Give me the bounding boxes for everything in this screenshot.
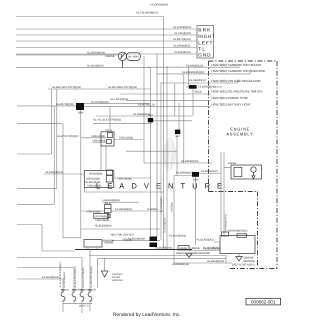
svg-text:HGN70(01) ENGINE STOP: HGN70(01) ENGINE STOP [212, 96, 249, 100]
svg-text:000662-001: 000662-001 [251, 300, 276, 305]
svg-text:HL,BRN(8)(10): HL,BRN(8)(10) [186, 64, 203, 67]
svg-text:HL,BRN(8)(26): HL,BRN(8)(26) [181, 160, 198, 163]
svg-text:HEADTAIL_01: HEADTAIL_01 [138, 103, 155, 106]
svg-text:HGN5B: HGN5B [123, 239, 132, 242]
svg-text:HL,BRN(8)(27): HL,BRN(8)(27) [176, 171, 193, 174]
svg-text:HGN5A(8)(RED): HGN5A(8)(RED) [228, 230, 247, 233]
svg-text:HL,YEL(8)(02): HL,YEL(8)(02) [174, 32, 191, 35]
svg-text:TL: TL [198, 47, 206, 53]
svg-text:HL,BLK(8)(A2): HL,BLK(8)(A2) [155, 246, 172, 249]
svg-text:HL,BLK(8)(A2): HL,BLK(8)(A2) [203, 246, 220, 249]
svg-text:HL,BRN(8)(02): HL,BRN(8)(02) [173, 44, 190, 47]
svg-text:BRK: BRK [198, 28, 211, 34]
svg-text:HGH2(8)(B): HGH2(8)(B) [93, 140, 107, 143]
svg-text:LEADVENTURE: LEADVENTURE [96, 181, 229, 190]
svg-text:HL,WHT(8)(02): HL,WHT(8)(02) [56, 103, 74, 106]
svg-text:GROUND: GROUND [244, 260, 256, 263]
svg-text:HL,RED(8)(17): HL,RED(8)(17) [189, 79, 206, 82]
svg-text:HL,WT,STP(8)(02): HL,WT,STP(8)(02) [57, 135, 78, 138]
svg-text:HL,RED(8)(A1): HL,RED(8)(A1) [63, 272, 66, 288]
svg-text:BRK: BRK [193, 179, 199, 182]
svg-text:(8) BTTS: (8) BTTS [79, 304, 89, 307]
svg-text:HL,BRN/WH(8)(02): HL,BRN/WH(8)(02) [182, 71, 204, 74]
svg-text:HL,BLK(8)(01): HL,BLK(8)(01) [174, 51, 191, 54]
svg-text:GE2: GE2 [148, 114, 153, 117]
svg-text:BAT: BAT [176, 135, 181, 138]
svg-text:RIGHT: RIGHT [198, 34, 215, 40]
svg-text:HL,RED(8)(13): HL,RED(8)(13) [46, 171, 63, 174]
svg-text:HGN5B: HGN5B [106, 55, 115, 58]
svg-text:NEUTRAL SWITCH: NEUTRAL SWITCH [111, 234, 134, 237]
svg-text:HL,BLK(8)(B1): HL,BLK(8)(B1) [164, 217, 167, 233]
svg-text:HL,YEL,BLK,STP(8)(01): HL,YEL,BLK,STP(8)(01) [93, 118, 121, 121]
svg-text:HL,BLK(8)(A2): HL,BLK(8)(A2) [197, 239, 214, 242]
svg-text:HGN5B: HGN5B [228, 162, 237, 165]
svg-text:HGN75(01) OIL PRESSURE SWITCH: HGN75(01) OIL PRESSURE SWITCH [212, 90, 263, 94]
svg-text:HGN5B(8)(A2): HGN5B(8)(A2) [172, 263, 189, 266]
svg-text:HGH2(8)(8): HGH2(8)(8) [92, 135, 106, 138]
svg-text:B-GND3: B-GND3 [148, 208, 158, 211]
svg-text:HL,BLK(8)(A2): HL,BLK(8)(A2) [207, 260, 224, 263]
svg-text:HGH2(8)(B): HGH2(8)(B) [95, 215, 107, 218]
svg-text:HGH2(8)(8): HGH2(8)(8) [119, 137, 133, 140]
svg-text:HGN5(8)B: HGN5(8)B [102, 240, 114, 243]
svg-text:HGN72(01) BATTERY LIGHT: HGN72(01) BATTERY LIGHT [212, 102, 252, 106]
svg-text:RELAY: RELAY [106, 129, 114, 132]
svg-text:HL,WHT,BLK,STP(8)(02): HL,WHT,BLK,STP(8)(02) [108, 86, 137, 89]
svg-text:HL,BLK(8)(A2): HL,BLK(8)(A2) [42, 276, 59, 279]
svg-text:HGN5B: HGN5B [191, 247, 200, 250]
svg-text:HGH2(8)(8): HGH2(8)(8) [87, 210, 101, 213]
svg-text:HL,STW(8)(02): HL,STW(8)(02) [91, 101, 109, 104]
svg-text:HL,ORG(8)(05): HL,ORG(8)(05) [151, 4, 169, 7]
svg-text:15A: 15A [92, 289, 96, 292]
svg-text:HL,F,WH(8)(02): HL,F,WH(8)(02) [110, 98, 128, 101]
svg-text:ASSEMBLY: ASSEMBLY [226, 131, 253, 136]
svg-text:30A: 30A [84, 289, 88, 292]
svg-text:HL,BLK,WHT,STP(8)(02): HL,BLK,WHT,STP(8)(02) [52, 86, 81, 89]
svg-text:HGH2(8)(8): HGH2(8)(8) [89, 172, 103, 175]
svg-text:GND: GND [198, 53, 211, 59]
svg-text:LA,RED(8)(A1): LA,RED(8)(A1) [103, 199, 121, 202]
svg-text:GE1B: GE1B [195, 91, 202, 94]
svg-text:HGH2(8)(B): HGH2(8)(B) [88, 184, 102, 187]
svg-text:HL,BRN(8)(27): HL,BRN(8)(27) [201, 170, 218, 173]
svg-text:GROUND: GROUND [112, 279, 123, 282]
svg-text:20A: 20A [76, 289, 80, 292]
svg-text:HL,BLK,WHT,STP(8)(21): HL,BLK,WHT,STP(8)(21) [59, 261, 62, 288]
svg-text:HGN5(02) FRAME GROUND: HGN5(02) FRAME GROUND [176, 252, 210, 255]
svg-text:HL,BLK(8)(05): HL,BLK(8)(05) [87, 64, 104, 67]
svg-text:20A: 20A [65, 289, 69, 292]
svg-text:HGN72(02) CARBURETOR HEATER: HGN72(02) CARBURETOR HEATER [212, 63, 263, 67]
svg-text:HL,BLK,WHT(8)(A1): HL,BLK,WHT(8)(A1) [74, 266, 77, 288]
svg-text:LEFT: LEFT [198, 40, 213, 46]
svg-text:OIL SENS: OIL SENS [128, 55, 139, 58]
svg-text:HGN73(02) VOLTAGE REGULATOR: HGN73(02) VOLTAGE REGULATOR [212, 79, 262, 83]
svg-text:HL,ORG(8)(04): HL,ORG(8)(04) [87, 51, 105, 54]
svg-text:HL,BLK(8)(04): HL,BLK(8)(04) [95, 225, 112, 228]
svg-text:Rendered by LeadVenture, Inc.: Rendered by LeadVenture, Inc. [113, 312, 181, 318]
svg-text:HL,BLK(8)(B1): HL,BLK(8)(B1) [169, 234, 186, 237]
svg-text:HL,AMP(8)(B1): HL,AMP(8)(B1) [160, 196, 163, 213]
svg-text:HL,RED,WHT(8)(B1): HL,RED,WHT(8)(B1) [90, 265, 93, 288]
svg-text:HGN5(B): HGN5(B) [171, 202, 174, 212]
svg-text:HL,P,WH(8)(02): HL,P,WH(8)(02) [173, 26, 191, 29]
svg-text:HL,WHT(8)(02): HL,WHT(8)(02) [173, 38, 191, 41]
svg-text:HGN5B: HGN5B [179, 247, 188, 250]
svg-text:LA,RED,STP(8)(A1): LA,RED,STP(8)(A1) [82, 266, 85, 288]
svg-text:HGH2(8)(B): HGH2(8)(B) [96, 219, 110, 222]
svg-text:HGN70(02) CARBURETOR SOLENOID: HGN70(02) CARBURETOR SOLENOID [212, 69, 266, 73]
svg-text:LA,RED(8)(A1): LA,RED(8)(A1) [115, 208, 133, 211]
svg-text:(OIL FILTER ASSY): (OIL FILTER ASSY) [232, 264, 255, 267]
svg-text:HL,YEL/WH(8)(07): HL,YEL/WH(8)(07) [136, 12, 158, 15]
